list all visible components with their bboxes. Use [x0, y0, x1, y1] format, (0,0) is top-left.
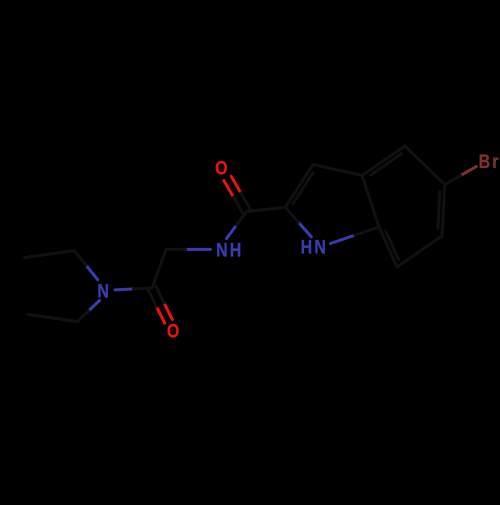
svg-text:NH: NH — [216, 239, 243, 261]
svg-text:Br: Br — [479, 151, 500, 173]
svg-text:O: O — [215, 157, 230, 179]
svg-text:HN: HN — [301, 236, 328, 258]
svg-text:O: O — [167, 320, 182, 342]
svg-text:N: N — [97, 280, 111, 302]
